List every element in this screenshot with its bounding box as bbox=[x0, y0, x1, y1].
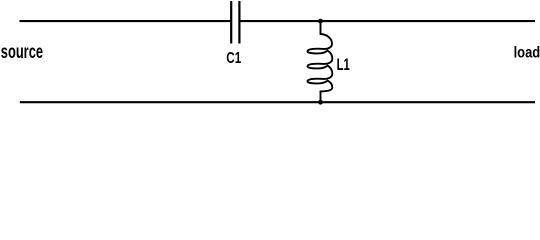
svg-text:source: source bbox=[1, 41, 43, 62]
capacitor C1 left plate bbox=[230, 1, 232, 44]
wire top-left segment (source to C1) bbox=[20, 20, 232, 22]
wire bottom (source to load) bbox=[20, 101, 535, 103]
inductor L1 coil bbox=[307, 21, 332, 102]
svg-text:load: load bbox=[514, 44, 540, 62]
svg-text:L1: L1 bbox=[337, 55, 350, 74]
node junction top bbox=[318, 19, 323, 24]
node junction bottom bbox=[318, 100, 323, 105]
svg-text:C1: C1 bbox=[226, 48, 241, 66]
wire top-right segment (C1 to load) bbox=[239, 20, 535, 22]
capacitor C1 right plate bbox=[238, 1, 240, 44]
